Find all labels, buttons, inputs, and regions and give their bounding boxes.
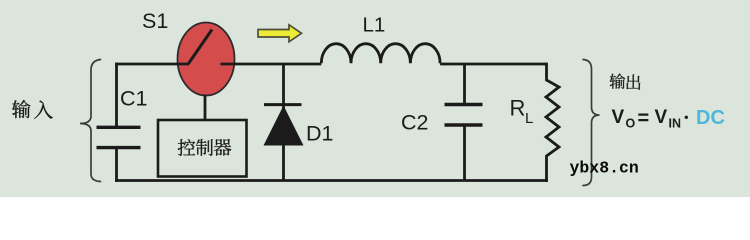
svg-text:IN: IN bbox=[669, 117, 682, 131]
svg-text:S1: S1 bbox=[142, 9, 168, 33]
svg-text:C1: C1 bbox=[120, 87, 147, 111]
svg-text:D1: D1 bbox=[306, 122, 333, 146]
svg-text:DC: DC bbox=[696, 107, 725, 129]
svg-text:C2: C2 bbox=[401, 111, 428, 135]
svg-text:L: L bbox=[525, 110, 533, 127]
svg-text:ybx8.cn: ybx8.cn bbox=[570, 159, 639, 178]
svg-text:V: V bbox=[612, 107, 625, 128]
svg-text:R: R bbox=[510, 96, 526, 121]
svg-text:V: V bbox=[655, 107, 668, 128]
svg-text:=: = bbox=[638, 108, 650, 130]
svg-text:L1: L1 bbox=[363, 14, 386, 37]
svg-text:O: O bbox=[626, 117, 636, 131]
